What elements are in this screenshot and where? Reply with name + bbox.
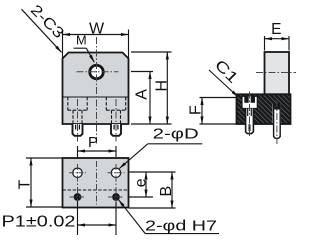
svg-text:2-φD: 2-φD bbox=[153, 125, 199, 142]
thread hole M (front) bbox=[90, 65, 104, 79]
centerline pin column (side) bbox=[276, 101, 278, 145]
svg-text:2-φd H7: 2-φd H7 bbox=[145, 217, 217, 234]
plan view body bbox=[63, 158, 129, 208]
svg-text:P1±0.02: P1±0.02 bbox=[2, 214, 76, 231]
hidden line plan bbox=[63, 189, 129, 191]
svg-text:E: E bbox=[271, 21, 281, 38]
hole phid left (plan) bbox=[70, 193, 86, 201]
label M with leader bbox=[74, 33, 95, 63]
svg-text:P: P bbox=[88, 134, 98, 151]
centerline horizontal (side) bbox=[256, 72, 296, 74]
dimension W bbox=[63, 21, 129, 59]
centerline plan middle bbox=[96, 161, 98, 205]
centerline hole column right (plan) bbox=[115, 164, 117, 206]
side view upper block bbox=[265, 52, 290, 94]
dimension E bbox=[265, 21, 290, 51]
dimension A bbox=[131, 72, 153, 125]
label 2-phid H7 with leader bbox=[119, 200, 219, 235]
dimension P1 bbox=[2, 201, 117, 235]
dimension P bbox=[78, 134, 117, 157]
hole phid right (plan) bbox=[108, 193, 124, 201]
hidden counterbore left (front) bbox=[68, 97, 87, 124]
dimension e bbox=[129, 172, 176, 197]
centerline pin left (front) bbox=[77, 99, 79, 142]
label C1 with leader bbox=[209, 57, 241, 97]
centerline hole column left (plan) bbox=[77, 164, 79, 206]
svg-text:M: M bbox=[76, 33, 87, 48]
front view body bbox=[63, 53, 129, 125]
centerline screw column (side) bbox=[249, 92, 251, 138]
hole phiD left (plan) bbox=[69, 168, 86, 177]
svg-text:W: W bbox=[89, 21, 105, 38]
centerline vertical front middle bbox=[96, 37, 98, 144]
svg-text:e: e bbox=[132, 178, 149, 187]
centerline pin right (front) bbox=[115, 99, 117, 142]
svg-text:F: F bbox=[187, 105, 204, 115]
dimension T bbox=[16, 158, 62, 207]
screw head in pocket bbox=[244, 96, 255, 103]
label 2-phiD with leader bbox=[119, 125, 202, 168]
screw shank (side) bbox=[246, 109, 254, 134]
svg-text:T: T bbox=[16, 180, 33, 190]
pin right (front) bbox=[111, 124, 121, 136]
label 2-C3 with leader bbox=[22, 2, 68, 53]
svg-text:H: H bbox=[153, 80, 170, 92]
dimension F bbox=[187, 98, 236, 125]
dimension H bbox=[131, 52, 172, 124]
hidden counterbore right (front) bbox=[106, 97, 125, 124]
svg-text:B: B bbox=[158, 186, 175, 197]
hole phiD right (plan) bbox=[108, 168, 125, 177]
svg-text:A: A bbox=[134, 89, 151, 100]
pin left (front) bbox=[73, 124, 83, 136]
dowel pin (side) bbox=[274, 105, 281, 139]
side view base flange (section, hatched) bbox=[237, 94, 291, 124]
counterbore pocket (side section) bbox=[242, 96, 257, 108]
dimension B bbox=[129, 172, 176, 208]
centerline horizontal through hole M bbox=[77, 71, 119, 73]
dowel pin channel (side) bbox=[273, 104, 281, 123]
front view step line bbox=[63, 96, 129, 98]
